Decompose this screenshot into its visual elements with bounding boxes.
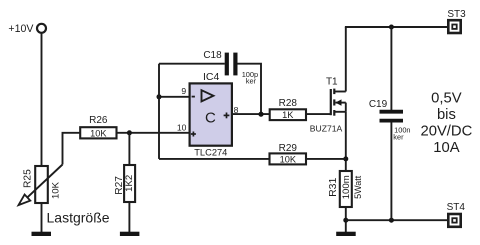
svg-text:R26: R26 <box>89 115 108 126</box>
wire top rail to ST3 <box>345 26 448 28</box>
wire R26 to op-amp pin 10 <box>117 132 190 134</box>
terminal ST4 <box>447 202 466 227</box>
resistor R27 <box>114 165 135 202</box>
svg-text:R25: R25 <box>23 169 34 188</box>
svg-text:+10V: +10V <box>8 23 34 35</box>
svg-text:9: 9 <box>181 86 186 96</box>
svg-text:5Watt: 5Watt <box>353 175 363 199</box>
svg-text:ker: ker <box>246 77 257 86</box>
ground below R25 <box>32 232 52 236</box>
svg-text:R28: R28 <box>279 98 298 109</box>
wire feedback top to C18 <box>159 63 225 65</box>
wire feedback bottom to R29 <box>159 158 270 160</box>
potentiometer R25 <box>19 165 63 206</box>
svg-text:TLC274: TLC274 <box>194 147 227 157</box>
svg-text:IC4: IC4 <box>203 71 220 83</box>
svg-text:ST4: ST4 <box>447 202 466 213</box>
svg-text:10A: 10A <box>433 140 459 156</box>
svg-text:BUZ71A: BUZ71A <box>310 124 343 134</box>
wiper arrow of R25 <box>27 165 63 199</box>
wire pin 8 output <box>232 113 270 115</box>
node junction R26/R27/pin10 <box>127 130 132 135</box>
terminal ST3 <box>447 9 466 33</box>
wire C19 top <box>390 27 392 110</box>
node T1 source junction <box>343 156 348 161</box>
wire C19 bottom <box>390 122 392 220</box>
wire R25 wiper up to R26 <box>63 133 81 165</box>
capacitor C18 <box>203 50 258 86</box>
resistor R28 <box>270 98 306 120</box>
wire R31 bottom to ground <box>345 207 347 232</box>
svg-text:1K: 1K <box>282 110 294 120</box>
resistor R31 <box>327 171 363 207</box>
wire R25 bottom to ground <box>41 203 43 232</box>
transistor T1 MOSFET <box>310 77 346 134</box>
output spec text <box>420 91 472 157</box>
svg-text:0,5V: 0,5V <box>431 91 462 107</box>
wire C18 to output node <box>237 64 261 114</box>
svg-text:20V/DC: 20V/DC <box>420 123 472 139</box>
ground below R27 <box>120 232 139 236</box>
svg-text:R29: R29 <box>279 143 298 154</box>
wire feedback vertical <box>158 64 160 159</box>
svg-text:10: 10 <box>177 123 187 133</box>
svg-text:ST3: ST3 <box>447 9 466 20</box>
wire R29 to source node <box>306 158 346 160</box>
op-amp U IC4 body <box>190 83 232 145</box>
svg-text:R31: R31 <box>327 178 339 197</box>
wire R28 to T1 gate <box>306 113 331 115</box>
node output junction <box>258 112 263 117</box>
resistor R26 <box>80 115 116 138</box>
svg-text:10K: 10K <box>280 154 297 164</box>
resistor R29 <box>270 143 307 164</box>
svg-text:100m: 100m <box>341 175 352 199</box>
node pin 9 junction <box>157 94 162 99</box>
wire T1 drain up to top rail <box>345 27 347 92</box>
svg-text:Lastgröße: Lastgröße <box>47 209 110 225</box>
node R31/ST4 junction <box>343 218 348 223</box>
wire R27 bottom to ground <box>128 202 130 232</box>
svg-text:1K2: 1K2 <box>124 175 135 192</box>
svg-text:10K: 10K <box>50 181 61 199</box>
svg-text:ker: ker <box>393 132 404 141</box>
svg-text:C18: C18 <box>203 50 222 61</box>
ground below R31 <box>336 232 356 236</box>
node top rail / C19 <box>389 25 394 30</box>
power +10V terminal <box>8 23 46 35</box>
wire +10V to R25 top <box>41 33 43 166</box>
svg-text:bis: bis <box>437 107 456 123</box>
svg-text:C19: C19 <box>369 99 388 110</box>
svg-text:10K: 10K <box>90 128 107 138</box>
wire bottom rail to ST4 <box>346 219 449 221</box>
svg-text:C: C <box>205 109 216 126</box>
node bottom rail / C19 <box>389 218 394 223</box>
wire junction down to R27 <box>128 133 130 165</box>
capacitor C19 <box>369 99 411 141</box>
wire pin 9 input <box>159 96 190 98</box>
wire T1 source down to R29/R31 node <box>345 112 347 171</box>
svg-text:T1: T1 <box>326 77 338 88</box>
